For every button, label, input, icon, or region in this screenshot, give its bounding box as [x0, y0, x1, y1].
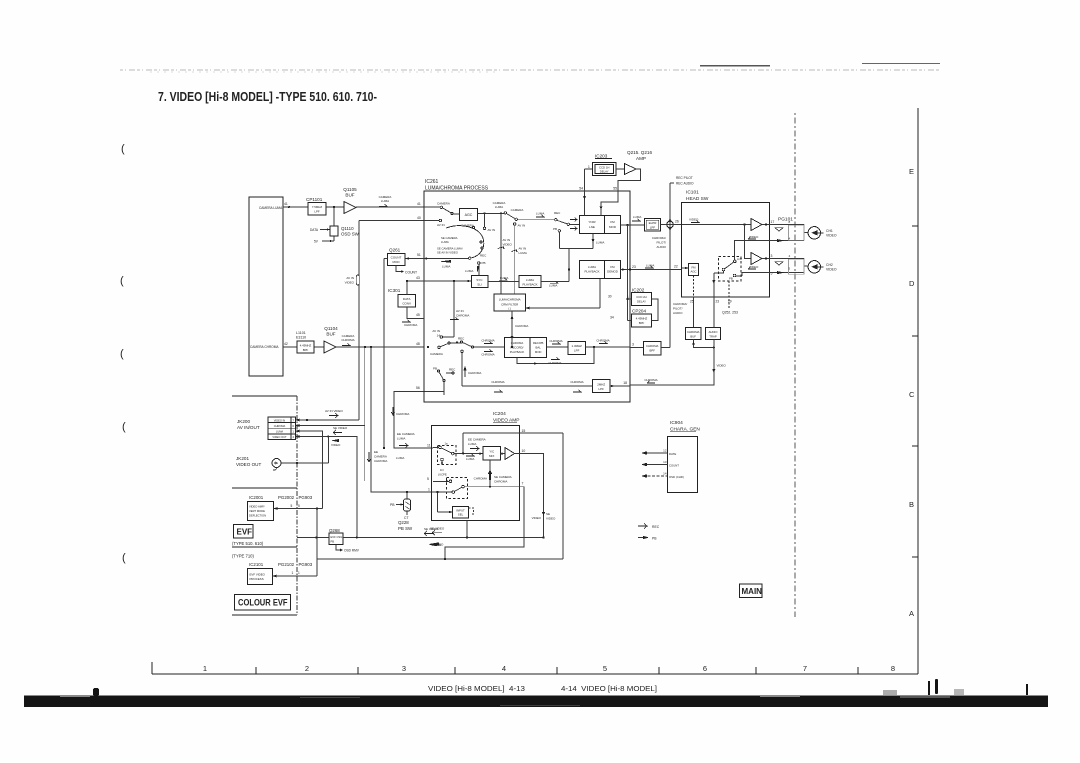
svg-text:41: 41 [417, 202, 421, 206]
wire JK200 row3 [296, 430, 323, 509]
svg-text:34: 34 [610, 316, 614, 320]
label SE VIDEO under IC204 [430, 527, 445, 531]
pin 41 camera box [284, 202, 288, 206]
svg-text:45: 45 [416, 313, 420, 317]
label EE CAMERA CHROMA [374, 450, 387, 463]
svg-text:AV IN VIDEO: AV IN VIDEO [325, 409, 343, 413]
svg-text:PG101: PG101 [778, 217, 793, 223]
svg-text:SE CAMERA: SE CAMERA [494, 475, 512, 479]
ruler numbers [203, 664, 895, 673]
filter CHROMA BPF [630, 342, 670, 356]
svg-text:LUMA: LUMA [536, 212, 544, 216]
svg-text:51: 51 [417, 253, 421, 257]
right border line [917, 108, 919, 674]
svg-text:4-14 VIDEO [Hi-8 MODEL]: 4-14 VIDEO [Hi-8 MODEL] [561, 684, 657, 693]
svg-text:CHROMA: CHROMA [456, 314, 469, 318]
mode select arc [446, 226, 484, 260]
svg-text:LUMA: LUMA [396, 456, 404, 460]
legend REC arrow [638, 524, 647, 529]
svg-text:OSD SW: OSD SW [341, 232, 360, 237]
svg-text:IC101: IC101 [686, 190, 699, 196]
label MAIN boxed [740, 584, 763, 598]
svg-text:REC AUDIO: REC AUDIO [676, 182, 694, 186]
svg-text:1: 1 [627, 295, 629, 299]
svg-text:41: 41 [284, 202, 288, 206]
svg-text:10: 10 [522, 449, 526, 453]
summing node [661, 218, 683, 232]
switch camera/av-in pin41 [424, 206, 453, 222]
svg-text:EE CAMERA: EE CAMERA [468, 438, 486, 442]
svg-text:CAMERA CHROMA: CAMERA CHROMA [250, 345, 279, 349]
svg-text:DEMOD: DEMOD [607, 270, 618, 274]
svg-text:BPF: BPF [639, 321, 645, 325]
svg-text:CHROMA: CHROMA [481, 353, 494, 357]
svg-text:REC/PB: REC/PB [533, 341, 544, 345]
delay IC202 [632, 288, 645, 293]
wire chroma buf join [692, 340, 715, 349]
svg-text:PG903: PG903 [299, 562, 313, 567]
wire chroma to YC mix [464, 460, 521, 488]
svg-text:VIDEO OUT: VIDEO OUT [236, 462, 261, 467]
svg-text:(TYPE 510. 610): (TYPE 510. 610) [232, 541, 264, 546]
svg-text:DELAY: DELAY [600, 170, 609, 174]
agc FM AGC [682, 264, 699, 276]
svg-text:PILOT/: PILOT/ [656, 241, 666, 245]
switch head select dashed [719, 257, 742, 282]
switch PB luma [477, 262, 480, 276]
wire CP204 input [628, 320, 632, 322]
delay IC203 [595, 154, 608, 159]
svg-text:7: 7 [522, 482, 524, 486]
wire Q268 output video to EVF [297, 537, 545, 539]
svg-text:PB: PB [553, 227, 557, 231]
IC203 label underline [595, 158, 612, 160]
svg-text:LUMA: LUMA [441, 240, 449, 244]
wire lpf to pin3 [586, 346, 631, 348]
svg-text:15: 15 [522, 429, 526, 433]
wire amp out to pin55 [618, 169, 641, 191]
switch camera luma [504, 212, 554, 221]
pin 41 IC261 [417, 202, 421, 206]
label AV IN VIDEO [325, 409, 343, 413]
svg-text:DELAY: DELAY [637, 300, 646, 304]
svg-text:DEFLECTION: DEFLECTION [249, 514, 266, 518]
svg-text:Y/C: Y/C [489, 450, 495, 454]
svg-text:4: 4 [789, 254, 791, 258]
buffer Q1105 [344, 202, 356, 214]
selector INPUT SEL [437, 491, 474, 518]
head switch IC101 [686, 190, 709, 203]
svg-text:BPF: BPF [649, 349, 655, 353]
svg-text:LUMA: LUMA [276, 430, 283, 434]
svg-text:CHROMA: CHROMA [481, 339, 494, 343]
svg-text:1.3MHZ: 1.3MHZ [572, 344, 583, 348]
wires sync-playback [488, 234, 594, 282]
wire pin25 to chroma buf [693, 297, 695, 328]
buffer CHROMA BUF [686, 328, 702, 340]
svg-text:D: D [909, 279, 915, 288]
svg-text:FM: FM [610, 265, 615, 269]
svg-text:Q1105: Q1105 [343, 187, 357, 192]
svg-text:LVCPE: LVCPE [438, 473, 447, 477]
junction FM demod line [629, 268, 631, 270]
label SE VIDEO on EVF line [424, 527, 439, 531]
svg-text:EVF VIDEO: EVF VIDEO [250, 573, 266, 577]
svg-text:VIDEO OUT: VIDEO OUT [272, 435, 287, 439]
converter IC301 [388, 288, 401, 293]
wire to YC mix [454, 452, 505, 455]
amp IC204 out [501, 448, 520, 460]
svg-text:JK201: JK201 [236, 456, 249, 461]
svg-text:PLAYBACK: PLAYBACK [584, 270, 599, 274]
svg-text:12: 12 [663, 449, 667, 453]
wire IC202-CP204 loop [652, 299, 659, 321]
svg-text:CH1: CH1 [826, 229, 833, 233]
svg-text:(: ( [120, 348, 124, 360]
svg-text:CHROMA: CHROMA [404, 323, 417, 327]
svg-text:VIDEO: VIDEO [749, 265, 759, 269]
svg-text:LUMA: LUMA [633, 215, 641, 219]
wire ch1 out [770, 225, 809, 243]
svg-text:LUMA: LUMA [468, 442, 476, 446]
wire pin54 [583, 169, 592, 216]
svg-text:PLAYBACK: PLAYBACK [510, 350, 525, 354]
svg-text:COUNT: COUNT [391, 256, 402, 260]
svg-text:8: 8 [891, 664, 895, 673]
svg-text:LPF: LPF [314, 210, 320, 214]
wire JK200 row4 [296, 435, 357, 537]
wire FM DEMOD to pin22 [621, 268, 683, 271]
svg-text:VIDEO: VIDEO [345, 281, 355, 285]
wire IC2101 input [273, 575, 318, 578]
switch chroma rec path pin48 [427, 341, 505, 349]
svg-text:CHROMA: CHROMA [491, 380, 504, 384]
wire pin7 [445, 487, 524, 559]
svg-text:PB: PB [729, 277, 733, 281]
svg-text:PB: PB [652, 537, 657, 541]
svg-text:5: 5 [427, 477, 429, 481]
connector JK201 [272, 437, 328, 471]
svg-text:CHROMA: CHROMA [646, 344, 659, 348]
svg-text:REC: REC [480, 254, 487, 258]
svg-text:(TYPE 710): (TYPE 710) [232, 554, 254, 559]
wire pin29 dashed [728, 281, 730, 310]
svg-text:VIDEO: VIDEO [546, 517, 556, 521]
black scan bar bottom [24, 679, 1048, 707]
svg-text:REC: REC [554, 211, 561, 215]
svg-text:23: 23 [632, 265, 636, 269]
svg-text:IC301: IC301 [388, 288, 401, 293]
svg-text:4.43MHZ: 4.43MHZ [300, 344, 312, 348]
svg-text:CHROMA/: CHROMA/ [652, 236, 666, 240]
svg-text:CHROMA: CHROMA [548, 361, 561, 365]
wire IC2001 input [274, 507, 323, 510]
svg-text:B: B [909, 500, 914, 509]
svg-text:BPF: BPF [303, 348, 309, 352]
svg-text:LPF: LPF [650, 226, 656, 230]
IC904 label underline [670, 431, 696, 433]
wire DATE out [641, 451, 668, 455]
wire camera luma [283, 206, 424, 208]
svg-text:SYC: SYC [476, 278, 483, 282]
connector PG2102 PG903 labels [278, 562, 313, 567]
label AV IN VIDEO mid [345, 276, 355, 285]
amp Q215 Q216 [627, 150, 652, 161]
svg-text:VIDEO: VIDEO [826, 268, 837, 272]
wire camera luma to CRM filter [500, 213, 502, 294]
svg-text:4: 4 [502, 664, 506, 673]
svg-text:Q1110: Q1110 [341, 226, 354, 231]
svg-text:CHROMA: CHROMA [549, 339, 562, 343]
jack CH1 VIDEO [808, 227, 823, 239]
svg-text:56: 56 [416, 386, 420, 390]
svg-text:22: 22 [674, 265, 678, 269]
return video ch1 [735, 241, 770, 260]
svg-text:COUNT: COUNT [405, 271, 417, 275]
svg-text:SE: SE [546, 512, 550, 516]
wire pin43 line [406, 280, 472, 283]
filter CP204 [632, 309, 646, 314]
svg-text:Q252. 253: Q252. 253 [722, 311, 738, 315]
wire IC204 bottom stub [466, 521, 468, 538]
svg-text:CHROMA: CHROMA [644, 378, 657, 382]
wire FM MOD out LUMA [621, 224, 645, 226]
svg-text:C: C [909, 390, 915, 399]
wire COUNT out [396, 266, 404, 273]
switch PB contact luma [558, 230, 560, 249]
label CHROMA/PILOT/AUDIO lower [673, 302, 687, 315]
svg-text:VIDEO: VIDEO [331, 443, 341, 447]
EVF section border [232, 396, 297, 615]
svg-text:MOD: MOD [393, 260, 401, 264]
title [158, 89, 377, 104]
svg-text:VIDEO: VIDEO [826, 234, 837, 238]
connector PG101 [778, 217, 793, 223]
svg-text:4: 4 [292, 435, 294, 439]
svg-text:LUMA: LUMA [381, 199, 389, 203]
svg-text:CHROMA: CHROMA [341, 338, 354, 342]
svg-text:VIDEO AMP/: VIDEO AMP/ [249, 505, 265, 509]
generator IC904 CHARA GEN [670, 420, 700, 433]
svg-text:PB: PB [482, 261, 486, 265]
svg-text:OSD (CHR): OSD (CHR) [669, 475, 684, 479]
svg-text:RECORD/: RECORD/ [511, 346, 524, 350]
svg-text:IC204: IC204 [493, 411, 506, 417]
label EVF boxed [234, 525, 254, 539]
svg-text:55: 55 [613, 187, 617, 191]
net REC PILOT / REC AUDIO [670, 183, 674, 221]
IC2101 evf video process [248, 569, 273, 585]
IC204 label underline [493, 422, 517, 424]
svg-text:SE VIDEO: SE VIDEO [430, 527, 445, 531]
svg-text:AMP: AMP [636, 156, 646, 161]
label AV IN VIDEO inner [503, 238, 513, 247]
svg-text:DATA: DATA [403, 297, 411, 301]
wire pin15 top [317, 433, 563, 560]
svg-text:PB: PB [390, 503, 395, 507]
svg-text:AV IN/OUT: AV IN/OUT [237, 425, 260, 430]
svg-text:( ): ( ) [508, 307, 511, 311]
svg-text:YNR/: YNR/ [588, 220, 595, 224]
sync block [472, 276, 489, 288]
svg-text:5: 5 [771, 272, 773, 276]
wire OSD out [641, 474, 668, 478]
svg-text:LUMA: LUMA [549, 284, 557, 288]
wire AGC out [478, 212, 505, 214]
IC2001 video amp [248, 502, 274, 521]
svg-text:CHROMA: CHROMA [494, 480, 507, 484]
svg-text:LPF: LPF [599, 387, 605, 391]
wire AV IN chroma branch [440, 281, 454, 338]
vertical bus chroma row [364, 347, 366, 481]
wire CRM to chroma line [511, 311, 514, 348]
svg-text:Q268: Q268 [329, 528, 340, 533]
svg-text:LPF: LPF [574, 349, 580, 353]
svg-text:BUF: BUF [326, 332, 335, 337]
wire video in pin26 [682, 223, 751, 225]
svg-text:CHROMA/: CHROMA/ [673, 302, 687, 306]
bottom ruler [152, 662, 918, 674]
pin numbers PG101 [789, 220, 791, 271]
svg-text:CHROMA: CHROMA [515, 324, 528, 328]
filter LUMA/CHROMA CRM [494, 294, 526, 311]
wire ch2 out [770, 259, 809, 275]
svg-text:7. VIDEO [Hi-8 MODEL] -TYPE 51: 7. VIDEO [Hi-8 MODEL] -TYPE 510. 610. 71… [158, 89, 377, 104]
return video ch2 [742, 273, 770, 276]
svg-text:PILOT/: PILOT/ [673, 307, 683, 311]
svg-text:5: 5 [789, 267, 791, 271]
svg-text:LUMA: LUMA [500, 276, 508, 280]
svg-text:MOD: MOD [609, 225, 617, 229]
svg-text:PB: PB [433, 367, 437, 371]
right border ticks [912, 226, 918, 557]
svg-text:REC: REC [449, 368, 456, 372]
svg-text:VIDEO: VIDEO [503, 243, 513, 247]
svg-text:IC261: IC261 [425, 179, 439, 185]
svg-text:HEAD SW: HEAD SW [686, 196, 709, 202]
svg-text:7: 7 [292, 418, 294, 422]
svg-text:EE: EE [374, 450, 378, 454]
footer page labels [428, 684, 657, 693]
svg-text:5: 5 [291, 504, 293, 508]
svg-text:13: 13 [663, 460, 667, 464]
svg-text:CAMERA LUMA: CAMERA LUMA [259, 206, 283, 210]
trap AUDIO TRAP [706, 297, 721, 340]
svg-text:26: 26 [675, 220, 679, 224]
svg-text:5: 5 [298, 504, 300, 508]
svg-text:AV IN: AV IN [456, 309, 464, 313]
svg-text:SEL: SEL [458, 513, 464, 517]
svg-text:IC202: IC202 [632, 288, 645, 293]
switch REC luma [555, 219, 580, 226]
processor LUMA PLAYBACK + FM DEMOD [580, 261, 621, 279]
IC261 luma/chroma process box [424, 191, 630, 402]
label CHROMA on bus [396, 412, 409, 416]
svg-text:MOD: MOD [535, 350, 542, 354]
svg-text:BUF: BUF [345, 193, 354, 198]
label AV IN LUMA inner [519, 247, 527, 256]
svg-text:REC PILOT: REC PILOT [676, 176, 693, 180]
wire OSD RMV [336, 545, 343, 552]
wire inner FM MOD feed [626, 225, 628, 321]
svg-text:AV IN: AV IN [432, 329, 440, 333]
svg-text:Q261: Q261 [389, 248, 401, 253]
svg-text:AUDIO: AUDIO [673, 311, 683, 315]
amp head ch1 [751, 219, 770, 231]
svg-text:LUMA: LUMA [397, 437, 405, 441]
label EE CAMERA LUMA [397, 432, 415, 441]
svg-text:CAMERA: CAMERA [511, 208, 524, 212]
svg-text:(: ( [122, 421, 126, 433]
svg-text:14: 14 [663, 472, 667, 476]
block LUMA PLAYBACK small [519, 276, 541, 288]
wire pin10 video down [520, 454, 546, 538]
svg-text:VIDEO: VIDEO [717, 364, 727, 368]
svg-text:1N: 1N [440, 468, 443, 472]
svg-text:CHROMA: CHROMA [468, 371, 481, 375]
svg-text:2MHZ: 2MHZ [597, 383, 605, 387]
wire audio trap video return [630, 340, 715, 386]
labels mode select [437, 236, 463, 255]
transistor Q228 PB SW [396, 491, 411, 515]
svg-text:6: 6 [292, 424, 294, 428]
svg-text:LUMA: LUMA [466, 457, 474, 461]
svg-text:7.5MHZ: 7.5MHZ [312, 205, 323, 209]
svg-text:1: 1 [588, 165, 590, 169]
arrows into YNR [570, 218, 577, 231]
svg-text:AV IN: AV IN [518, 224, 526, 228]
camera block [249, 197, 283, 376]
svg-text:JK200: JK200 [237, 419, 250, 424]
svg-text:CHROMA: CHROMA [474, 477, 487, 481]
svg-text:LUMA: LUMA [596, 241, 604, 245]
wire JK200 row1 [296, 419, 360, 422]
svg-text:1: 1 [428, 488, 430, 492]
svg-text:VIDEO IN: VIDEO IN [274, 418, 286, 422]
wire record loop [517, 347, 594, 365]
label chroma up arrow [463, 366, 466, 377]
svg-text:VERT MODE: VERT MODE [249, 509, 265, 513]
svg-text:5V: 5V [314, 240, 319, 244]
svg-text:AV IN: AV IN [503, 238, 511, 242]
svg-text:SLI: SLI [477, 283, 482, 287]
svg-text:DATA: DATA [310, 228, 319, 232]
label CAMERA LUMA net [379, 195, 392, 203]
svg-text:CHROMA: CHROMA [274, 424, 286, 428]
svg-text:PG2002: PG2002 [278, 495, 295, 500]
svg-text:PLAYBACK: PLAYBACK [522, 283, 537, 287]
jack CH2 VIDEO [808, 261, 823, 273]
wire IC202 input [628, 298, 632, 300]
switch Q1110 OSD SW [320, 207, 338, 242]
svg-text:LUMA: LUMA [526, 278, 534, 282]
svg-text:43: 43 [416, 276, 420, 280]
svg-text:TRAP: TRAP [709, 335, 717, 339]
legend PB arrow [638, 536, 649, 539]
svg-text:17: 17 [771, 220, 775, 224]
svg-text:BAL: BAL [536, 346, 542, 350]
filter CP1101 [308, 203, 326, 216]
svg-text:3: 3 [771, 254, 773, 258]
svg-text:Q1104: Q1104 [324, 326, 338, 331]
label SE VIDEO [333, 426, 348, 430]
filter 1.3MHZ LPF [568, 342, 586, 355]
svg-text:MIX: MIX [489, 454, 494, 458]
svg-text:LUMA: LUMA [495, 205, 503, 209]
svg-text:3: 3 [632, 343, 634, 347]
svg-text:VIDEO: VIDEO [749, 235, 759, 239]
vertical bus COUNT [383, 259, 385, 450]
